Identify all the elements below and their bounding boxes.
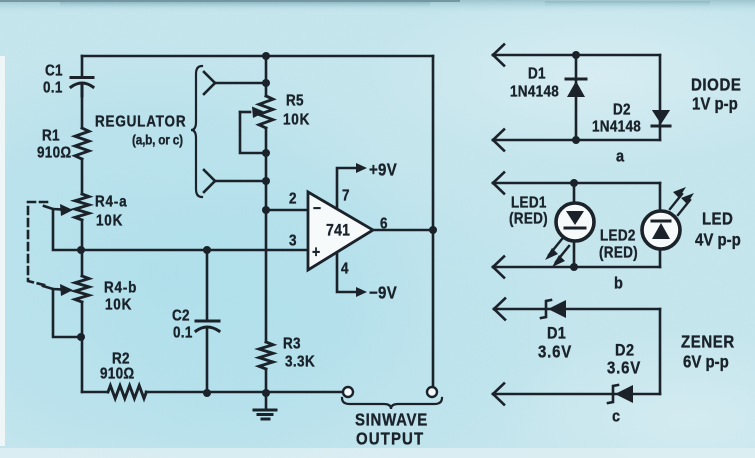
- resistor R5: [259, 96, 273, 128]
- wire R4-b to bottom: [81, 302, 84, 392]
- wire R3 to ground: [265, 369, 268, 409]
- potentiometer R4-b: [75, 276, 89, 302]
- svg-text:3.3K: 3.3K: [285, 354, 315, 371]
- svg-text:(RED): (RED): [509, 211, 548, 228]
- svg-text:C2: C2: [172, 308, 190, 325]
- wire pin7 +9V: [337, 163, 367, 208]
- wire pin6 output: [373, 229, 433, 232]
- svg-text:c: c: [612, 408, 620, 426]
- diode D1 1N4148: [566, 79, 586, 97]
- svg-text:(RED): (RED): [599, 245, 638, 262]
- terminal arrow c bottom: [493, 384, 504, 395]
- terminal arrow b bottom: [493, 257, 504, 268]
- wire c right: [659, 309, 662, 394]
- junction pin2 node: [262, 206, 270, 214]
- LED1 (RED): [556, 203, 594, 241]
- wire b bottom: [493, 266, 660, 269]
- svg-text:741: 741: [326, 222, 350, 240]
- wire R4-a to junction: [81, 220, 84, 276]
- svg-text:R4-b: R4-b: [104, 280, 137, 297]
- terminal arrow c top: [494, 299, 505, 310]
- zener D1 3.6V: [541, 300, 566, 318]
- capacitor C2: [196, 250, 219, 393]
- junction R4-a R4-b node: [77, 246, 85, 254]
- wire a middle branch: [575, 55, 578, 140]
- wire a right: [659, 55, 662, 140]
- capacitor C1: [71, 78, 93, 97]
- diode D2 1N4148: [652, 110, 670, 126]
- wire b left branch: [573, 183, 576, 267]
- regulator tap upper: [204, 72, 266, 94]
- svg-text:R4-a: R4-a: [95, 194, 127, 211]
- R4-b wiper arm: [43, 286, 81, 337]
- svg-text:a: a: [616, 148, 624, 166]
- wire b top: [493, 182, 660, 185]
- regulator brace: [191, 66, 202, 197]
- svg-text:LED1: LED1: [511, 195, 547, 212]
- middle rail to R3: [265, 210, 268, 342]
- op-amp U1 741: [308, 192, 373, 270]
- junction C2 top / pin3 wire: [203, 246, 211, 254]
- node dots b: [570, 179, 578, 271]
- wire op-amp pin2: [266, 209, 308, 212]
- LED1 emission arrows: [545, 239, 569, 267]
- wire a top: [493, 54, 660, 57]
- junction upper tap: [262, 79, 270, 87]
- junction R4-b wiper node: [77, 333, 85, 341]
- svg-text:−: −: [313, 200, 321, 218]
- svg-text:2: 2: [289, 191, 297, 208]
- svg-text:3.6V: 3.6V: [607, 359, 641, 378]
- LED2 (RED): [642, 211, 680, 249]
- svg-text:3.6V: 3.6V: [538, 343, 572, 362]
- R5 wiper arm: [240, 112, 266, 153]
- svg-text:D2: D2: [615, 342, 635, 360]
- resistor R3: [259, 342, 273, 369]
- wire top horizontal: [82, 55, 433, 58]
- wire c bottom: [493, 393, 660, 396]
- svg-text:10K: 10K: [96, 213, 123, 230]
- svg-text:(a,b, or c): (a,b, or c): [132, 132, 183, 148]
- svg-text:6V p-p: 6V p-p: [683, 353, 729, 372]
- svg-text:10K: 10K: [105, 297, 132, 314]
- R4-a wiper arm: [44, 206, 81, 250]
- middle rail top: [265, 56, 268, 96]
- junction R5 wiper: [262, 149, 270, 157]
- svg-text:DIODE: DIODE: [691, 76, 741, 95]
- svg-text:LED: LED: [702, 210, 733, 229]
- svg-text:910Ω: 910Ω: [100, 366, 135, 383]
- output terminal right: [427, 387, 437, 397]
- junction output node: [429, 226, 437, 234]
- svg-text:0.1: 0.1: [173, 325, 193, 342]
- ground: [254, 410, 276, 419]
- svg-text:1N4148: 1N4148: [592, 119, 641, 136]
- svg-text:REGULATOR: REGULATOR: [95, 114, 186, 131]
- wire pin4 -9V: [337, 254, 367, 297]
- wire c top: [494, 308, 660, 311]
- wire C1 to R1: [81, 85, 84, 128]
- svg-text:+9V: +9V: [369, 161, 397, 180]
- wiper arrowheads: [60, 107, 265, 297]
- terminal arrow b top: [493, 173, 504, 184]
- middle rail R5 to tap: [265, 128, 268, 210]
- junction C2 bottom: [203, 389, 211, 397]
- svg-text:910Ω: 910Ω: [37, 145, 72, 162]
- svg-text:4V p-p: 4V p-p: [695, 231, 741, 250]
- potentiometer R4-a: [75, 194, 89, 220]
- terminal arrow a top: [493, 45, 504, 56]
- svg-text:3: 3: [289, 233, 297, 250]
- LED2 emission arrows: [670, 187, 694, 215]
- wire R1 to R4-a: [81, 159, 84, 194]
- wire op-amp pin3: [82, 249, 308, 252]
- svg-text:R3: R3: [283, 336, 301, 353]
- junction ground node: [262, 389, 270, 397]
- wire left rail upper: [81, 56, 84, 76]
- svg-text:7: 7: [342, 188, 350, 205]
- svg-text:D1: D1: [547, 325, 566, 343]
- zener D2 3.6V: [608, 385, 633, 403]
- CIRCUIT A: [493, 45, 670, 151]
- CIRCUIT C: [493, 299, 660, 405]
- resistor R2: [108, 386, 146, 399]
- svg-text:R1: R1: [42, 128, 60, 145]
- junction top rail / R5 rail: [262, 52, 270, 60]
- wire bottom to output: [146, 391, 342, 394]
- sinwave brace: [342, 398, 442, 409]
- svg-text:OUTPUT: OUTPUT: [356, 430, 424, 449]
- svg-text:R5: R5: [286, 93, 304, 110]
- svg-text:b: b: [614, 275, 623, 293]
- CIRCUIT B: [493, 173, 694, 278]
- svg-text:LED2: LED2: [600, 228, 636, 245]
- node dots a: [572, 51, 580, 144]
- wire b right branch: [659, 183, 662, 267]
- right rail: [432, 56, 435, 386]
- svg-text:SINWAVE: SINWAVE: [355, 411, 428, 430]
- wire a bottom: [493, 139, 660, 142]
- wire bottom left: [82, 391, 107, 394]
- output terminal left: [343, 387, 353, 397]
- dashed gang link: [28, 202, 47, 285]
- svg-text:D2: D2: [613, 102, 631, 119]
- svg-text:10K: 10K: [283, 112, 310, 129]
- svg-text:+: +: [312, 244, 320, 262]
- svg-text:C1: C1: [45, 63, 63, 80]
- svg-text:1N4148: 1N4148: [510, 84, 559, 101]
- junction lower tap: [262, 177, 270, 185]
- resistor R1: [75, 128, 89, 159]
- terminal arrow a bottom: [493, 130, 504, 141]
- svg-text:4: 4: [341, 261, 349, 278]
- svg-text:ZENER: ZENER: [681, 333, 735, 352]
- svg-text:1V p-p: 1V p-p: [692, 95, 738, 114]
- svg-text:−9V: −9V: [369, 284, 397, 303]
- svg-text:D1: D1: [528, 66, 546, 83]
- svg-text:0.1: 0.1: [43, 80, 63, 97]
- svg-text:6: 6: [380, 216, 388, 233]
- regulator tap lower: [204, 170, 266, 192]
